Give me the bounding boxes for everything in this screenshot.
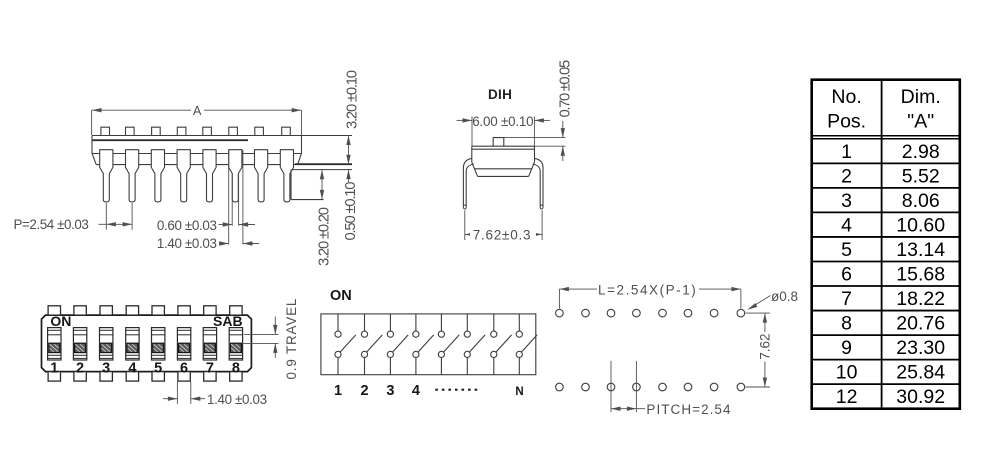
svg-text:2: 2 bbox=[76, 360, 84, 376]
schematic switch 8 bbox=[516, 314, 537, 375]
dimension 1.40 ±0.03 (top view) bbox=[163, 382, 267, 408]
svg-text:A: A bbox=[193, 103, 202, 118]
table header text bbox=[827, 86, 941, 132]
table row 1 bbox=[841, 141, 940, 163]
dimension 3.20 ±0.10 bbox=[344, 70, 360, 164]
dimension PITCH=2.54 bbox=[611, 361, 732, 417]
hole bottom row 4 bbox=[633, 383, 641, 391]
svg-text:9: 9 bbox=[841, 337, 852, 359]
slider 8 bbox=[230, 343, 241, 352]
svg-text:7.62±0.3: 7.62±0.3 bbox=[473, 227, 531, 242]
hole bottom row 2 bbox=[582, 383, 590, 391]
leader ø0.8 bbox=[747, 296, 770, 310]
hole top row 3 bbox=[607, 309, 615, 317]
svg-text:2: 2 bbox=[841, 165, 852, 187]
svg-text:0.50 ±0.10: 0.50 ±0.10 bbox=[343, 182, 359, 241]
actuator bump 6 bbox=[229, 127, 238, 135]
DIH body bbox=[472, 146, 535, 176]
actuator bump 7 bbox=[255, 127, 264, 135]
hole bottom row 6 bbox=[684, 383, 692, 391]
bottom tab 7 bbox=[204, 372, 216, 382]
svg-text:25.84: 25.84 bbox=[896, 362, 945, 384]
hole bottom row 3 bbox=[607, 383, 615, 391]
actuator bump 3 bbox=[152, 127, 161, 135]
table row 5 bbox=[841, 239, 945, 261]
table row 2 bbox=[841, 165, 940, 187]
dimension 6.00 ±0.10 bbox=[457, 114, 551, 146]
svg-text:5.52: 5.52 bbox=[902, 165, 940, 187]
slider 4 bbox=[127, 343, 138, 352]
svg-text:8: 8 bbox=[841, 313, 852, 335]
svg-text:3: 3 bbox=[386, 383, 394, 399]
svg-text:7: 7 bbox=[841, 288, 852, 310]
wire: right pin profile extension bbox=[291, 170, 324, 200]
svg-text:7.62: 7.62 bbox=[757, 334, 772, 360]
top tab 8 bbox=[230, 306, 242, 315]
wire: bump top extension bbox=[504, 137, 566, 139]
svg-text:6: 6 bbox=[180, 360, 188, 376]
slider 2 bbox=[75, 343, 86, 352]
bottom tab 8 bbox=[230, 372, 242, 382]
top tab 4 bbox=[126, 306, 138, 315]
svg-text:4: 4 bbox=[128, 360, 136, 376]
svg-text:5: 5 bbox=[841, 239, 852, 261]
svg-text:1: 1 bbox=[334, 383, 342, 399]
wire: seating plane line bbox=[96, 164, 295, 166]
top view: switch body bbox=[42, 315, 252, 372]
actuator bump 4 bbox=[177, 127, 186, 135]
pin 3 (side view) bbox=[151, 150, 164, 202]
svg-text:P=2.54 ±0.03: P=2.54 ±0.03 bbox=[14, 217, 89, 232]
hole top row 2 bbox=[582, 309, 590, 317]
svg-text:23.30: 23.30 bbox=[896, 337, 945, 359]
svg-text:18.22: 18.22 bbox=[896, 288, 945, 310]
schematic switch 3 bbox=[387, 314, 408, 375]
svg-text:13.14: 13.14 bbox=[896, 239, 945, 261]
svg-text:0.60 ±0.03: 0.60 ±0.03 bbox=[157, 218, 217, 233]
slider 3 bbox=[101, 343, 112, 352]
top tab 1 bbox=[48, 306, 60, 315]
svg-text:12: 12 bbox=[836, 386, 858, 408]
top tab 3 bbox=[100, 306, 112, 315]
svg-text:7: 7 bbox=[206, 360, 214, 376]
svg-text:DIH: DIH bbox=[488, 87, 512, 102]
slider 6 bbox=[179, 343, 190, 352]
svg-text:3: 3 bbox=[102, 360, 110, 376]
dimension P=2.54 ±0.03 bbox=[14, 203, 133, 232]
switch slot 4 bbox=[126, 328, 139, 360]
actuator bump 2 bbox=[126, 127, 135, 135]
schematic outline bbox=[321, 314, 536, 375]
hole bottom row 7 bbox=[710, 383, 718, 391]
svg-text:N: N bbox=[515, 386, 523, 398]
dimension 3.20 ±0.20 bbox=[316, 170, 332, 266]
dimension 7.62 (row spacing) bbox=[746, 313, 773, 387]
top tab 6 bbox=[178, 306, 190, 315]
svg-text:2.98: 2.98 bbox=[902, 141, 940, 163]
DIH left leg bbox=[463, 158, 473, 209]
svg-text:4: 4 bbox=[841, 214, 852, 236]
table row 9 bbox=[841, 337, 945, 359]
schematic switch 5 bbox=[438, 314, 459, 375]
svg-text:3: 3 bbox=[841, 190, 852, 212]
svg-text:10.60: 10.60 bbox=[896, 214, 945, 236]
pin 6 width extension lines bbox=[229, 150, 243, 244]
svg-text:"A": "A" bbox=[907, 111, 934, 133]
pin 5 (side view) bbox=[203, 150, 216, 202]
hole top row 8 bbox=[737, 309, 745, 317]
table row 10 bbox=[836, 362, 945, 384]
svg-text:3.20 ±0.20: 3.20 ±0.20 bbox=[316, 207, 332, 266]
switch slot 5 bbox=[152, 328, 165, 360]
svg-text:ON: ON bbox=[50, 313, 71, 329]
hole top row 4 bbox=[633, 309, 641, 317]
side view: DIP switch body bbox=[92, 154, 352, 170]
pin 2 (side view) bbox=[126, 150, 139, 202]
pin 4 (side view) bbox=[177, 150, 190, 202]
svg-text:0.9 TRAVEL: 0.9 TRAVEL bbox=[284, 298, 299, 380]
hole bottom row 8 bbox=[737, 383, 745, 391]
slider 5 bbox=[153, 343, 164, 352]
switch slot 7 bbox=[203, 328, 216, 360]
svg-text:10: 10 bbox=[836, 362, 858, 384]
svg-text:6: 6 bbox=[841, 264, 852, 286]
dimension 0.70 ±0.05 bbox=[557, 60, 573, 161]
actuator bump 1 bbox=[101, 127, 110, 135]
hole bottom row 1 bbox=[556, 383, 564, 391]
bottom tab 6 bbox=[178, 372, 190, 382]
table row 7 bbox=[841, 288, 945, 310]
svg-text:6.00 ±0.10: 6.00 ±0.10 bbox=[472, 114, 533, 129]
table row 6 bbox=[841, 264, 945, 286]
actuator bump 5 bbox=[203, 127, 212, 135]
svg-text:PITCH=2.54: PITCH=2.54 bbox=[646, 402, 731, 417]
schematic switch 4 bbox=[413, 314, 434, 375]
hole bottom row 5 bbox=[659, 383, 667, 391]
schematic switch 1 bbox=[335, 314, 356, 375]
svg-text:20.76: 20.76 bbox=[896, 313, 945, 335]
svg-text:L=2.54X(P-1): L=2.54X(P-1) bbox=[598, 283, 697, 298]
svg-text:1.40 ±0.03: 1.40 ±0.03 bbox=[157, 236, 217, 251]
svg-text:0.70 ±0.05: 0.70 ±0.05 bbox=[557, 60, 573, 117]
dimension A bbox=[92, 103, 302, 135]
hole top row 7 bbox=[710, 309, 718, 317]
svg-text:1.40 ±0.03: 1.40 ±0.03 bbox=[207, 392, 267, 407]
svg-text:4: 4 bbox=[412, 383, 420, 399]
svg-text:Dim.: Dim. bbox=[901, 86, 941, 108]
switch slot 2 bbox=[73, 328, 86, 360]
pin 1 (side view) bbox=[100, 150, 113, 202]
svg-text:SAB: SAB bbox=[213, 313, 243, 329]
switch slot 3 bbox=[100, 328, 113, 360]
top tab 5 bbox=[152, 306, 164, 315]
DIH right leg bbox=[533, 158, 543, 209]
slider 7 bbox=[204, 343, 215, 352]
wire: body top extension bbox=[535, 145, 566, 147]
switch slot 8 bbox=[229, 328, 242, 360]
svg-text:8: 8 bbox=[232, 360, 240, 376]
svg-text:8.06: 8.06 bbox=[902, 190, 940, 212]
pin 7 (side view) bbox=[255, 150, 268, 202]
bottom tab 5 bbox=[152, 372, 164, 382]
switch slot 6 bbox=[177, 328, 190, 360]
wire: body bottom edge bbox=[92, 153, 302, 155]
pin 8 (side view) bbox=[280, 150, 293, 202]
dimension L=2.54X(P-1) bbox=[559, 283, 741, 309]
pin 6 (side view) bbox=[229, 150, 242, 202]
svg-text:1: 1 bbox=[50, 360, 58, 376]
schematic switch 7 bbox=[491, 314, 512, 375]
bottom tab 3 bbox=[100, 372, 112, 382]
hole top row 6 bbox=[684, 309, 692, 317]
table row 3 bbox=[841, 190, 940, 212]
table row 4 bbox=[841, 214, 945, 236]
side view body outline bbox=[92, 136, 352, 165]
wire: standoff line bbox=[291, 169, 353, 171]
schematic switch 6 bbox=[464, 314, 485, 375]
table row 8 bbox=[841, 313, 945, 335]
schematic dots bbox=[435, 389, 438, 391]
top tab 2 bbox=[74, 306, 86, 315]
DIH actuator bump bbox=[493, 138, 504, 147]
svg-text:No.: No. bbox=[831, 86, 861, 108]
svg-text:30.92: 30.92 bbox=[896, 386, 945, 408]
dimension 0.60 ±0.03 bbox=[157, 218, 255, 233]
hole top row 5 bbox=[659, 309, 667, 317]
switch slot 1 bbox=[48, 328, 61, 360]
dimension 0.9 TRAVEL bbox=[242, 298, 299, 380]
svg-text:ON: ON bbox=[330, 288, 352, 304]
bottom tab 1 bbox=[48, 372, 60, 382]
hole top row 1 bbox=[556, 309, 564, 317]
bottom tab 4 bbox=[126, 372, 138, 382]
svg-text:2: 2 bbox=[360, 383, 368, 399]
dimension 1.40 ±0.03 (side view) bbox=[157, 236, 259, 251]
svg-text:3.20 ±0.10: 3.20 ±0.10 bbox=[344, 70, 360, 129]
svg-text:5: 5 bbox=[154, 360, 162, 376]
schematic switch 2 bbox=[361, 314, 382, 375]
dimension 7.62 ±0.3 bbox=[465, 210, 542, 242]
top tab 7 bbox=[204, 306, 216, 315]
slider 1 bbox=[49, 343, 60, 352]
svg-text:15.68: 15.68 bbox=[896, 264, 945, 286]
table row 12 bbox=[836, 386, 945, 408]
table: No. Pos. / Dim. A bbox=[812, 80, 960, 409]
svg-text:1: 1 bbox=[841, 141, 852, 163]
actuator bump 8 bbox=[282, 127, 291, 135]
svg-text:ø0.8: ø0.8 bbox=[771, 289, 798, 304]
dimension 0.50 ±0.10 bbox=[343, 170, 359, 241]
svg-text:Pos.: Pos. bbox=[827, 111, 866, 133]
bottom tab 2 bbox=[74, 372, 86, 382]
